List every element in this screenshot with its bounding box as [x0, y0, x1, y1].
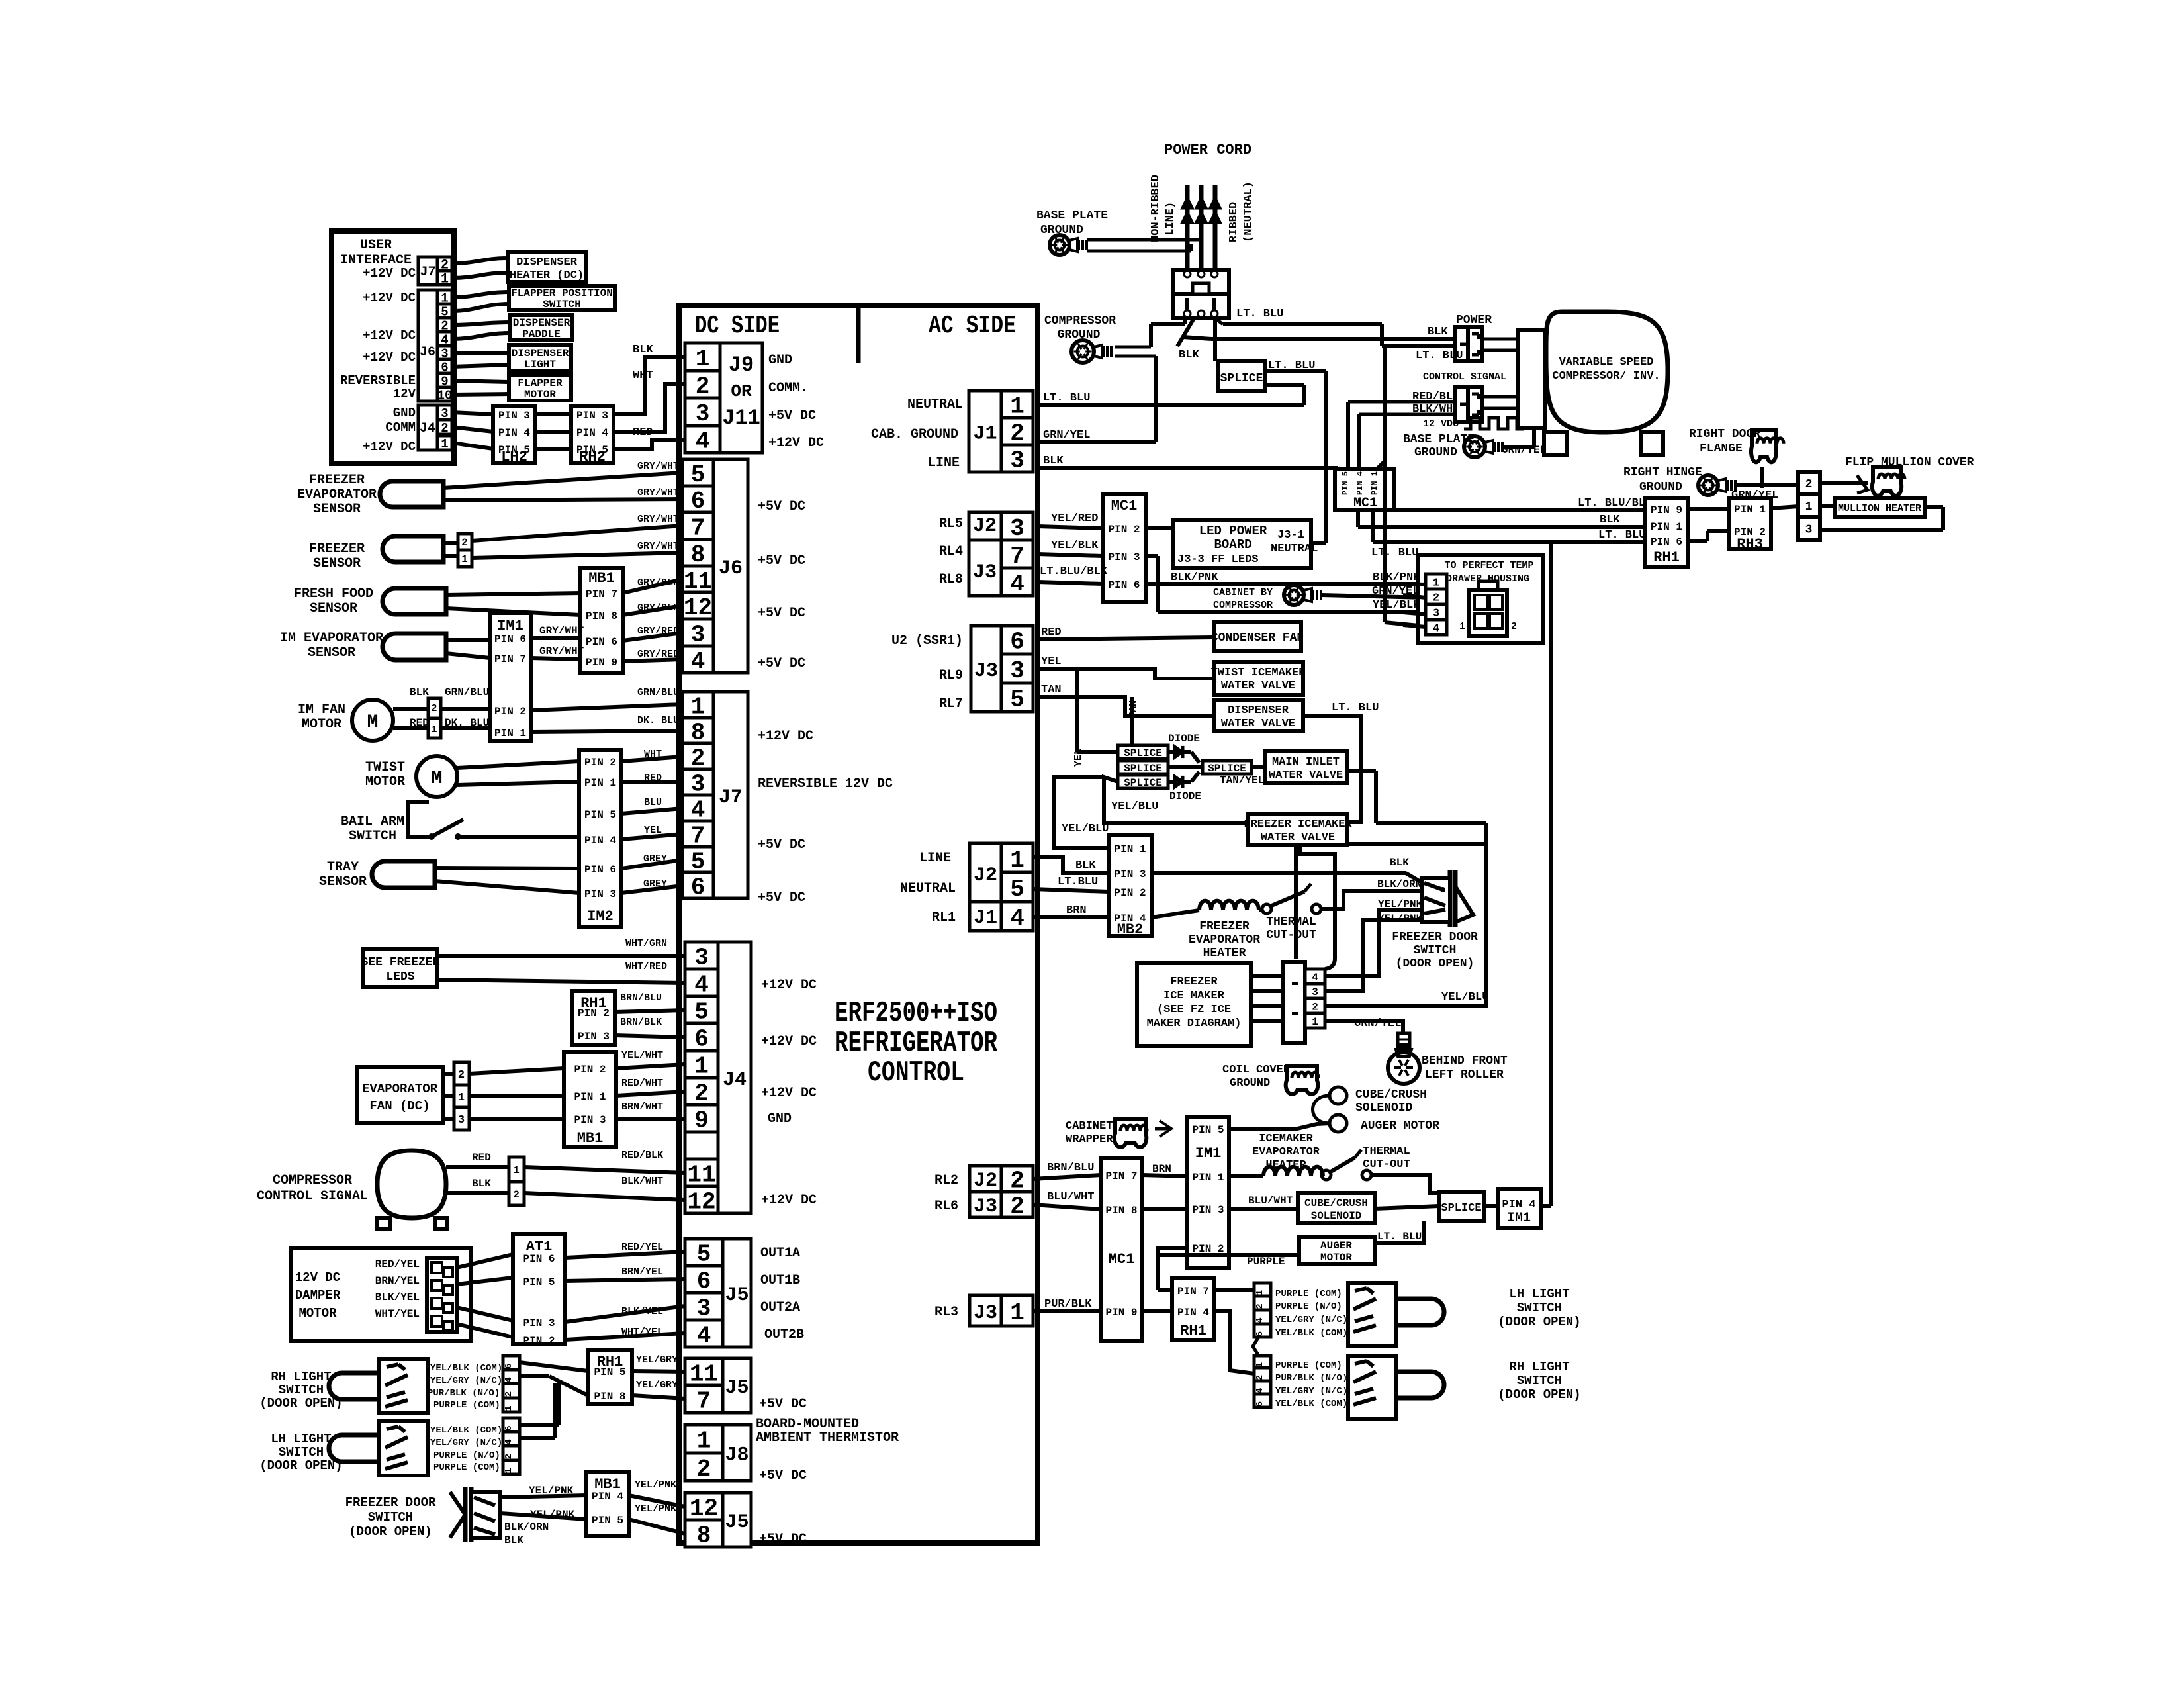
- svg-text:MOTOR: MOTOR: [1320, 1252, 1352, 1264]
- svg-text:3: 3: [696, 400, 710, 428]
- svg-text:RH1: RH1: [580, 995, 607, 1011]
- svg-text:PURPLE (COM): PURPLE (COM): [1275, 1289, 1342, 1299]
- svg-text:LT.BLU: LT.BLU: [1058, 876, 1098, 888]
- svg-text:PIN 8: PIN 8: [1105, 1205, 1137, 1217]
- svg-text:6: 6: [694, 1025, 709, 1053]
- svg-text:3: 3: [458, 1114, 465, 1127]
- svg-text:2: 2: [504, 1454, 514, 1459]
- compressor feet: [1544, 432, 1567, 455]
- wires power plug to inverter: [1482, 338, 1518, 341]
- svg-text:PIN 7: PIN 7: [1105, 1170, 1137, 1182]
- svg-text:BLK: BLK: [1179, 349, 1199, 361]
- svg-text:PURPLE (N/O): PURPLE (N/O): [1275, 1301, 1342, 1312]
- svg-text:BOARD-MOUNTED: BOARD-MOUNTED: [756, 1417, 859, 1432]
- svg-text:SWITCH: SWITCH: [349, 829, 396, 844]
- svg-text:BLK: BLK: [1075, 859, 1096, 872]
- svg-text:RL5: RL5: [939, 516, 963, 532]
- svg-text:4: 4: [504, 1377, 514, 1382]
- svg-text:MC1: MC1: [1111, 498, 1138, 514]
- wires RH1 to LH light switch connector: [1214, 1288, 1254, 1292]
- vertical wire main inlet valve to door switch loop: [1347, 769, 1376, 773]
- svg-text:J3: J3: [974, 1302, 997, 1325]
- svg-text:CABINET BY: CABINET BY: [1213, 587, 1273, 598]
- svg-text:+5V DC: +5V DC: [758, 656, 805, 671]
- DC/AC divider line: [856, 305, 861, 363]
- svg-text:4: 4: [1010, 905, 1024, 932]
- svg-text:CONTROL SIGNAL: CONTROL SIGNAL: [257, 1189, 368, 1204]
- svg-text:1: 1: [1010, 393, 1024, 420]
- variable speed compressor blob: [1546, 312, 1668, 432]
- connector RL3 J3-1: [1001, 1295, 1033, 1326]
- svg-text:6: 6: [691, 874, 705, 901]
- svg-text:M: M: [367, 712, 379, 733]
- svg-text:3: 3: [697, 1295, 711, 1322]
- svg-text:PIN 2: PIN 2: [574, 1064, 606, 1076]
- svg-text:4: 4: [504, 1439, 514, 1444]
- wires mullion heater loop: [1820, 504, 1835, 508]
- svg-text:+5V DC: +5V DC: [759, 1532, 807, 1547]
- connector RH1 mid-left: [572, 991, 615, 1045]
- svg-text:THERMAL: THERMAL: [1266, 915, 1316, 929]
- wires down into MC1 top: [1346, 402, 1350, 469]
- svg-text:MB1: MB1: [577, 1130, 604, 1147]
- svg-text:GRN/BLU: GRN/BLU: [445, 686, 489, 698]
- svg-text:YEL/GRY (N/C): YEL/GRY (N/C): [1275, 1386, 1347, 1397]
- svg-text:+5V DC: +5V DC: [758, 837, 805, 853]
- svg-text:WATER VALVE: WATER VALVE: [1221, 680, 1295, 692]
- svg-text:FREEZER DOOR: FREEZER DOOR: [345, 1495, 436, 1510]
- svg-text:4: 4: [697, 1322, 711, 1349]
- wire cutout to door switch BLK/ORN: [1321, 891, 1422, 909]
- svg-text:LINE: LINE: [928, 455, 960, 471]
- svg-text:PIN 1: PIN 1: [574, 1091, 606, 1103]
- svg-text:2: 2: [694, 1080, 709, 1107]
- svg-text:(DOOR OPEN): (DOOR OPEN): [1498, 1315, 1580, 1329]
- svg-text:FREEZER DOOR: FREEZER DOOR: [1392, 931, 1478, 944]
- svg-text:YEL/GRY: YEL/GRY: [636, 1354, 678, 1366]
- wires fresh food sensor to MB1: [446, 593, 580, 595]
- svg-text:J2: J2: [973, 515, 997, 538]
- svg-text:2: 2: [696, 373, 710, 400]
- svg-text:LT. BLU: LT. BLU: [1332, 702, 1379, 714]
- wire junction right pin LT.BLU right: [1215, 318, 1223, 324]
- svg-text:PIN 3: PIN 3: [1108, 551, 1140, 563]
- svg-text:PIN 4: PIN 4: [1502, 1199, 1535, 1211]
- svg-text:6: 6: [1255, 1401, 1265, 1407]
- svg-text:PIN 3: PIN 3: [578, 1031, 610, 1043]
- svg-text:BLK/YEL: BLK/YEL: [375, 1291, 420, 1303]
- svg-text:BLK: BLK: [1600, 514, 1620, 526]
- svg-text:LH2: LH2: [501, 449, 527, 465]
- svg-text:PIN 3: PIN 3: [523, 1317, 555, 1329]
- svg-text:MOTOR: MOTOR: [365, 774, 405, 790]
- svg-text:RED: RED: [472, 1152, 491, 1164]
- svg-text:RIGHT DOOR: RIGHT DOOR: [1689, 428, 1760, 441]
- connector MB1 bottom: [586, 1472, 629, 1536]
- svg-text:YEL/BLK (COM): YEL/BLK (COM): [1275, 1328, 1347, 1338]
- svg-text:YEL/GRY (N/C): YEL/GRY (N/C): [430, 1438, 502, 1448]
- evaporator fan box: [357, 1067, 443, 1123]
- svg-text:PIN 1: PIN 1: [1114, 843, 1146, 855]
- svg-text:COMPRESSOR: COMPRESSOR: [1044, 314, 1116, 328]
- dispenser water valve box: [1214, 700, 1303, 731]
- wire splice to LT.BLU vertical: [1265, 369, 1326, 373]
- svg-text:11: 11: [687, 1161, 715, 1188]
- svg-text:2: 2: [1010, 1193, 1024, 1220]
- svg-text:BLK: BLK: [633, 344, 653, 356]
- svg-text:THERMAL: THERMAL: [1363, 1145, 1410, 1158]
- svg-text:BLK: BLK: [472, 1178, 491, 1190]
- svg-text:PIN 5: PIN 5: [584, 809, 616, 821]
- connector RH1 bottom-left: [588, 1350, 632, 1404]
- svg-text:10: 10: [437, 388, 453, 402]
- svg-text:BLK: BLK: [504, 1534, 523, 1546]
- svg-text:7: 7: [691, 514, 705, 541]
- wire right hinge ground GRN/YEL to connector 2-1-3: [1736, 483, 1798, 487]
- svg-text:+12V DC: +12V DC: [761, 978, 817, 993]
- svg-text:PIN 6: PIN 6: [1108, 579, 1140, 591]
- svg-text:RH1: RH1: [1653, 549, 1680, 566]
- svg-text:YEL/BLU: YEL/BLU: [1062, 823, 1109, 835]
- svg-text:GRY/WHT: GRY/WHT: [637, 487, 679, 498]
- svg-text:YEL/GRY: YEL/GRY: [636, 1380, 678, 1391]
- connector 2-1-3 vertical: [1798, 472, 1820, 494]
- svg-text:+12V DC: +12V DC: [363, 440, 416, 454]
- svg-text:PIN 7: PIN 7: [586, 588, 617, 600]
- splice 1: [1118, 745, 1168, 759]
- svg-text:SWITCH: SWITCH: [279, 1445, 324, 1460]
- svg-text:PIN 4: PIN 4: [498, 427, 530, 439]
- 12V DC damper motor box: [291, 1248, 471, 1341]
- connector AT1: [513, 1234, 565, 1344]
- svg-text:GRY/WHT: GRY/WHT: [539, 645, 584, 657]
- svg-text:J1: J1: [973, 422, 997, 445]
- svg-text:BLU/WHT: BLU/WHT: [1248, 1195, 1293, 1207]
- svg-text:4: 4: [1255, 1317, 1265, 1323]
- connector RL2/RL6: [1001, 1166, 1033, 1192]
- svg-text:PIN 1: PIN 1: [1192, 1172, 1224, 1184]
- twist icemaker water valve box: [1214, 662, 1303, 695]
- connector IM1 left: [490, 613, 531, 741]
- see freezer leds box: [363, 949, 437, 987]
- RH light switch connector cells 2: [1254, 1356, 1271, 1368]
- svg-text:1: 1: [1459, 621, 1465, 632]
- svg-text:2: 2: [461, 537, 468, 549]
- svg-text:TO PERFECT TEMP: TO PERFECT TEMP: [1444, 560, 1533, 571]
- LED power board box: [1173, 520, 1311, 568]
- svg-text:1: 1: [504, 1468, 514, 1473]
- svg-text:J8: J8: [725, 1444, 749, 1466]
- svg-text:MOTOR: MOTOR: [302, 717, 341, 732]
- svg-text:J7: J7: [719, 786, 743, 809]
- connector J6 on user interface: [437, 290, 452, 304]
- connector RH3: [1729, 498, 1771, 549]
- svg-text:3: 3: [1010, 657, 1024, 684]
- svg-text:PIN 4: PIN 4: [1355, 471, 1365, 495]
- main inlet water valve box: [1265, 751, 1347, 783]
- svg-text:RL1: RL1: [932, 910, 956, 925]
- svg-text:PIN 3: PIN 3: [574, 1114, 606, 1126]
- connector J7: [682, 692, 713, 718]
- svg-text:SENSOR: SENSOR: [310, 601, 357, 616]
- svg-text:2: 2: [1312, 1002, 1318, 1013]
- svg-text:DK. BLU: DK. BLU: [637, 715, 679, 726]
- svg-text:RIBBED: RIBBED: [1228, 202, 1240, 242]
- svg-text:SWITCH: SWITCH: [1414, 944, 1457, 957]
- svg-text:TWIST ICEMAKER: TWIST ICEMAKER: [1211, 667, 1306, 679]
- RH light switch 4-cell connector: [503, 1356, 520, 1370]
- wires damper to AT1 diagonals: [457, 1254, 513, 1268]
- svg-text:RED: RED: [1041, 626, 1062, 639]
- svg-text:SPLICE: SPLICE: [1124, 763, 1162, 774]
- wires RH1 to RH3: [1688, 507, 1729, 511]
- svg-text:FLANGE: FLANGE: [1700, 442, 1743, 455]
- wire IM1 pin1 heater cutout: [1229, 1174, 1263, 1178]
- svg-text:DIODE: DIODE: [1168, 733, 1200, 745]
- svg-text:PIN 7: PIN 7: [494, 653, 526, 665]
- svg-text:BLK/PNK: BLK/PNK: [1373, 571, 1420, 584]
- svg-text:RH2: RH2: [579, 449, 606, 465]
- connector MC1 small top: [1335, 469, 1394, 510]
- wires RH3 to connector: [1771, 506, 1798, 508]
- wire cutout2 to splice right: [1371, 1175, 1439, 1193]
- svg-text:LT. BLU: LT. BLU: [1236, 308, 1283, 320]
- svg-text:5: 5: [697, 1241, 711, 1268]
- wire PIN4 IM1 to vertical: [1541, 1204, 1551, 1208]
- svg-text:WATER VALVE: WATER VALVE: [1269, 769, 1343, 782]
- LH light switch box right: [1348, 1283, 1396, 1346]
- wire solenoid to splice: [1375, 1206, 1439, 1209]
- svg-text:YEL/BLK (COM): YEL/BLK (COM): [430, 1363, 502, 1374]
- LH light switch 4-cell connector: [503, 1418, 520, 1432]
- svg-text:OUT2B: OUT2B: [764, 1327, 804, 1342]
- svg-text:GRY/WHT: GRY/WHT: [539, 625, 584, 637]
- svg-text:J3-3 FF LEDS: J3-3 FF LEDS: [1177, 553, 1258, 566]
- svg-text:BLK: BLK: [410, 686, 429, 698]
- svg-text:LED POWER: LED POWER: [1199, 524, 1267, 538]
- svg-text:J6: J6: [420, 345, 435, 360]
- svg-text:J5: J5: [725, 1511, 749, 1534]
- svg-text:BLU/WHT: BLU/WHT: [1047, 1191, 1094, 1203]
- svg-text:YEL: YEL: [1041, 655, 1062, 668]
- svg-text:WHT/GRN: WHT/GRN: [625, 938, 667, 949]
- svg-text:NON-RIBBED: NON-RIBBED: [1150, 175, 1162, 242]
- connector J2/J1 line-neutral-RL1: [1001, 843, 1033, 872]
- connector LH2: [493, 406, 535, 463]
- svg-text:1: 1: [694, 1053, 709, 1080]
- svg-text:+12V DC: +12V DC: [363, 350, 416, 365]
- svg-text:YEL/BLK (COM): YEL/BLK (COM): [1275, 1399, 1347, 1409]
- svg-text:J3-1: J3-1: [1277, 529, 1304, 541]
- svg-text:4: 4: [1312, 972, 1318, 984]
- svg-text:+12V DC: +12V DC: [761, 1193, 817, 1208]
- svg-text:LH LIGHT: LH LIGHT: [1509, 1287, 1569, 1301]
- icemaker connector 4-cell: [1283, 962, 1305, 1043]
- svg-text:PIN 6: PIN 6: [586, 636, 617, 648]
- svg-text:GRN/BLU: GRN/BLU: [637, 687, 679, 698]
- svg-text:GROUND: GROUND: [1414, 446, 1457, 459]
- svg-text:5: 5: [1010, 686, 1024, 713]
- RH lamp: [1396, 1372, 1444, 1398]
- wires IM evap sensor to IM1: [446, 638, 490, 642]
- svg-text:PIN 3: PIN 3: [1114, 868, 1146, 880]
- svg-text:2: 2: [513, 1189, 520, 1201]
- svg-text:5: 5: [1010, 876, 1024, 903]
- thermal cut-out 1: [1259, 909, 1262, 910]
- svg-text:LT. BLU: LT. BLU: [1371, 547, 1418, 559]
- connector RL5/RL4/RL8: [1001, 512, 1033, 540]
- svg-text:POWER CORD: POWER CORD: [1164, 142, 1251, 158]
- svg-text:GRY/WHT: GRY/WHT: [637, 514, 679, 525]
- svg-text:PIN 6: PIN 6: [584, 864, 616, 876]
- svg-text:NEUTRAL: NEUTRAL: [900, 881, 956, 896]
- svg-text:3: 3: [694, 944, 709, 971]
- svg-text:LH LIGHT: LH LIGHT: [271, 1432, 331, 1446]
- svg-text:1: 1: [696, 346, 710, 373]
- svg-text:PIN 2: PIN 2: [494, 706, 526, 718]
- svg-text:SOLENOID: SOLENOID: [1311, 1210, 1362, 1222]
- wire IM1 pin2 purple down to RH1 pin7: [1156, 1248, 1160, 1290]
- svg-text:CABINET: CABINET: [1066, 1120, 1113, 1133]
- svg-text:FLIP MULLION COVER: FLIP MULLION COVER: [1845, 456, 1974, 469]
- svg-text:NEUTRAL: NEUTRAL: [907, 397, 963, 412]
- svg-text:AUGER: AUGER: [1320, 1240, 1352, 1252]
- wire base plate ground to power cord: [1087, 238, 1201, 242]
- auger motor box: [1299, 1237, 1375, 1264]
- svg-text:IM FAN: IM FAN: [298, 702, 345, 718]
- svg-text:J7: J7: [420, 265, 435, 280]
- svg-text:2: 2: [697, 1456, 711, 1483]
- evap fan 3-pin connector: [454, 1062, 469, 1085]
- svg-text:WHT: WHT: [633, 369, 653, 382]
- svg-text:RH3: RH3: [1737, 536, 1763, 553]
- svg-text:+5V DC: +5V DC: [768, 408, 816, 424]
- svg-text:CUBE/CRUSH: CUBE/CRUSH: [1304, 1197, 1368, 1209]
- svg-text:PIN 1: PIN 1: [1370, 471, 1379, 495]
- svg-text:IM1: IM1: [497, 618, 523, 634]
- svg-text:1: 1: [1010, 1299, 1024, 1327]
- svg-text:4: 4: [1010, 571, 1024, 598]
- svg-text:MB1: MB1: [594, 1476, 621, 1493]
- svg-text:+5V DC: +5V DC: [758, 553, 805, 569]
- svg-text:2: 2: [441, 421, 448, 436]
- svg-text:DISPENSER: DISPENSER: [516, 256, 578, 269]
- svg-text:GND: GND: [768, 1111, 792, 1127]
- svg-text:ERF2500++ISO: ERF2500++ISO: [835, 997, 997, 1030]
- svg-text:MULLION HEATER: MULLION HEATER: [1838, 503, 1921, 514]
- svg-text:1: 1: [461, 553, 468, 565]
- svg-text:EVAPORATOR: EVAPORATOR: [362, 1082, 438, 1096]
- svg-text:2: 2: [1511, 621, 1517, 632]
- connector J5 12-8: [685, 1493, 723, 1520]
- svg-text:1: 1: [458, 1092, 465, 1104]
- svg-text:(NEUTRAL): (NEUTRAL): [1242, 181, 1255, 242]
- LT.BLU vertical to PIN4 IM1: [1549, 542, 1553, 1206]
- connector J6: [682, 459, 713, 486]
- power cord wires with arrows: [1185, 185, 1190, 270]
- svg-text:GROUND: GROUND: [1639, 481, 1682, 494]
- svg-text:WRAPPER: WRAPPER: [1066, 1133, 1113, 1146]
- svg-text:BEHIND FRONT: BEHIND FRONT: [1422, 1055, 1508, 1068]
- svg-text:RED/WHT: RED/WHT: [621, 1078, 663, 1089]
- wire YEL/BLK to drawer pin3: [1146, 554, 1158, 558]
- flapper motor box: [509, 375, 571, 400]
- svg-text:SOLENOID: SOLENOID: [1355, 1102, 1413, 1115]
- connector J5 OUT: [685, 1239, 723, 1266]
- svg-text:1: 1: [1010, 847, 1024, 874]
- svg-text:BAIL ARM: BAIL ARM: [341, 814, 404, 829]
- svg-text:PIN 8: PIN 8: [594, 1391, 625, 1403]
- svg-text:BRN/YEL: BRN/YEL: [621, 1266, 663, 1278]
- svg-text:PIN 1: PIN 1: [1651, 521, 1682, 533]
- svg-text:DC SIDE: DC SIDE: [695, 312, 780, 340]
- svg-text:PIN 5: PIN 5: [523, 1276, 555, 1288]
- svg-text:PIN 3: PIN 3: [584, 888, 616, 900]
- wire RH1 pin4 to RH switch connector: [1214, 1311, 1254, 1374]
- svg-text:IM1: IM1: [1195, 1145, 1222, 1162]
- svg-text:GRY/WHT: GRY/WHT: [637, 541, 679, 552]
- svg-text:WATER VALVE: WATER VALVE: [1221, 718, 1295, 730]
- svg-text:MOTOR: MOTOR: [524, 389, 556, 400]
- svg-text:LT.BLU/BLK: LT.BLU/BLK: [1040, 565, 1108, 578]
- connector IM1 right: [1187, 1117, 1229, 1268]
- svg-text:2: 2: [1010, 420, 1024, 447]
- svg-text:+12V DC: +12V DC: [363, 266, 416, 281]
- svg-text:PIN 6: PIN 6: [494, 633, 526, 645]
- svg-text:RL4: RL4: [939, 544, 963, 559]
- svg-text:+5V DC: +5V DC: [758, 890, 805, 906]
- wire jumper connector1 to connector2: [1253, 1337, 1259, 1356]
- svg-text:1: 1: [1312, 1016, 1318, 1028]
- svg-text:SWITCH: SWITCH: [1517, 1374, 1562, 1388]
- compressor blob mid-left: [377, 1150, 446, 1218]
- splice right box: [1439, 1192, 1484, 1221]
- svg-text:YEL/WHT: YEL/WHT: [621, 1050, 663, 1061]
- svg-text:1: 1: [441, 437, 448, 451]
- svg-text:REFRIGERATOR: REFRIGERATOR: [835, 1027, 997, 1060]
- svg-text:SENSOR: SENSOR: [319, 874, 367, 890]
- svg-text:PIN 2: PIN 2: [1114, 887, 1146, 899]
- wires door switch to MB1: [500, 1495, 586, 1497]
- svg-text:LEFT ROLLER: LEFT ROLLER: [1425, 1068, 1504, 1082]
- svg-text:WATER VALVE: WATER VALVE: [1261, 831, 1335, 844]
- svg-text:2: 2: [1805, 478, 1813, 491]
- wire junction right pin to splice: [1213, 318, 1217, 361]
- svg-text:SWITCH: SWITCH: [1517, 1301, 1562, 1315]
- svg-text:MB2: MB2: [1117, 921, 1144, 938]
- svg-text:SWITCH: SWITCH: [279, 1383, 324, 1397]
- drawer housing plug symbol: [1469, 590, 1507, 636]
- svg-text:SPLICE: SPLICE: [1441, 1202, 1481, 1215]
- inverter box: [1518, 330, 1545, 428]
- connector J4 on user interface: [437, 405, 452, 420]
- svg-text:1: 1: [1805, 500, 1813, 514]
- svg-text:4: 4: [696, 428, 710, 455]
- svg-text:PIN 1: PIN 1: [494, 727, 526, 739]
- svg-text:TRAY: TRAY: [327, 860, 359, 875]
- svg-text:PIN 6: PIN 6: [1651, 536, 1682, 548]
- svg-text:11: 11: [690, 1360, 718, 1387]
- svg-text:EVAPORATOR: EVAPORATOR: [1189, 933, 1260, 947]
- svg-text:+12V DC: +12V DC: [363, 328, 416, 343]
- svg-text:PUR/BLK (N/O): PUR/BLK (N/O): [428, 1388, 500, 1399]
- svg-text:ICE MAKER: ICE MAKER: [1163, 990, 1225, 1002]
- svg-text:12 VDC: 12 VDC: [1423, 418, 1459, 430]
- connector J5 11-7: [685, 1358, 723, 1385]
- svg-text:BLK: BLK: [1390, 857, 1409, 868]
- PIN4 IM1 box: [1498, 1189, 1541, 1228]
- svg-text:12V: 12V: [393, 387, 416, 401]
